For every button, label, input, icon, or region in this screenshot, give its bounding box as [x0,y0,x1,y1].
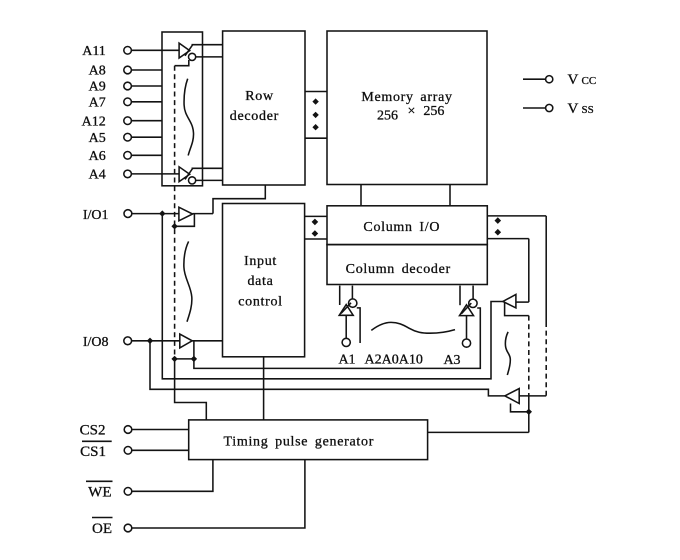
svg-text:CS1: CS1 [80,444,106,460]
svg-text:A5: A5 [89,131,106,146]
svg-text:OE: OE [92,521,112,537]
svg-text:CC: CC [582,75,597,87]
svg-text:data: data [247,274,273,289]
svg-text:A8: A8 [89,64,106,79]
svg-text:V: V [568,72,579,88]
svg-text:I/O8: I/O8 [83,335,109,350]
svg-text:×: × [408,104,416,119]
svg-text:control: control [238,294,283,309]
svg-text:Input: Input [244,254,277,269]
svg-text:A2A0A10: A2A0A10 [365,353,423,368]
svg-text:A3: A3 [443,353,460,368]
svg-text:A11: A11 [82,44,106,59]
svg-text:A12: A12 [82,114,106,129]
svg-text:Memory array: Memory array [361,90,452,105]
svg-text:256: 256 [423,104,444,119]
svg-text:Row: Row [245,89,274,104]
svg-text:A9: A9 [89,80,106,95]
svg-text:decoder: decoder [230,109,279,124]
svg-text:A6: A6 [89,149,106,164]
svg-text:A1: A1 [338,353,355,368]
svg-text:Column I/O: Column I/O [363,220,440,235]
svg-text:A7: A7 [89,96,106,111]
svg-text:256: 256 [377,108,398,123]
svg-text:V: V [568,101,579,117]
svg-text:I/O1: I/O1 [83,208,109,223]
svg-text:A4: A4 [89,168,106,183]
svg-text:Column decoder: Column decoder [346,262,451,277]
svg-text:Timing pulse generator: Timing pulse generator [224,434,375,449]
svg-text:SS: SS [582,104,594,116]
svg-text:WE: WE [88,484,111,500]
svg-text:CS2: CS2 [80,423,106,439]
